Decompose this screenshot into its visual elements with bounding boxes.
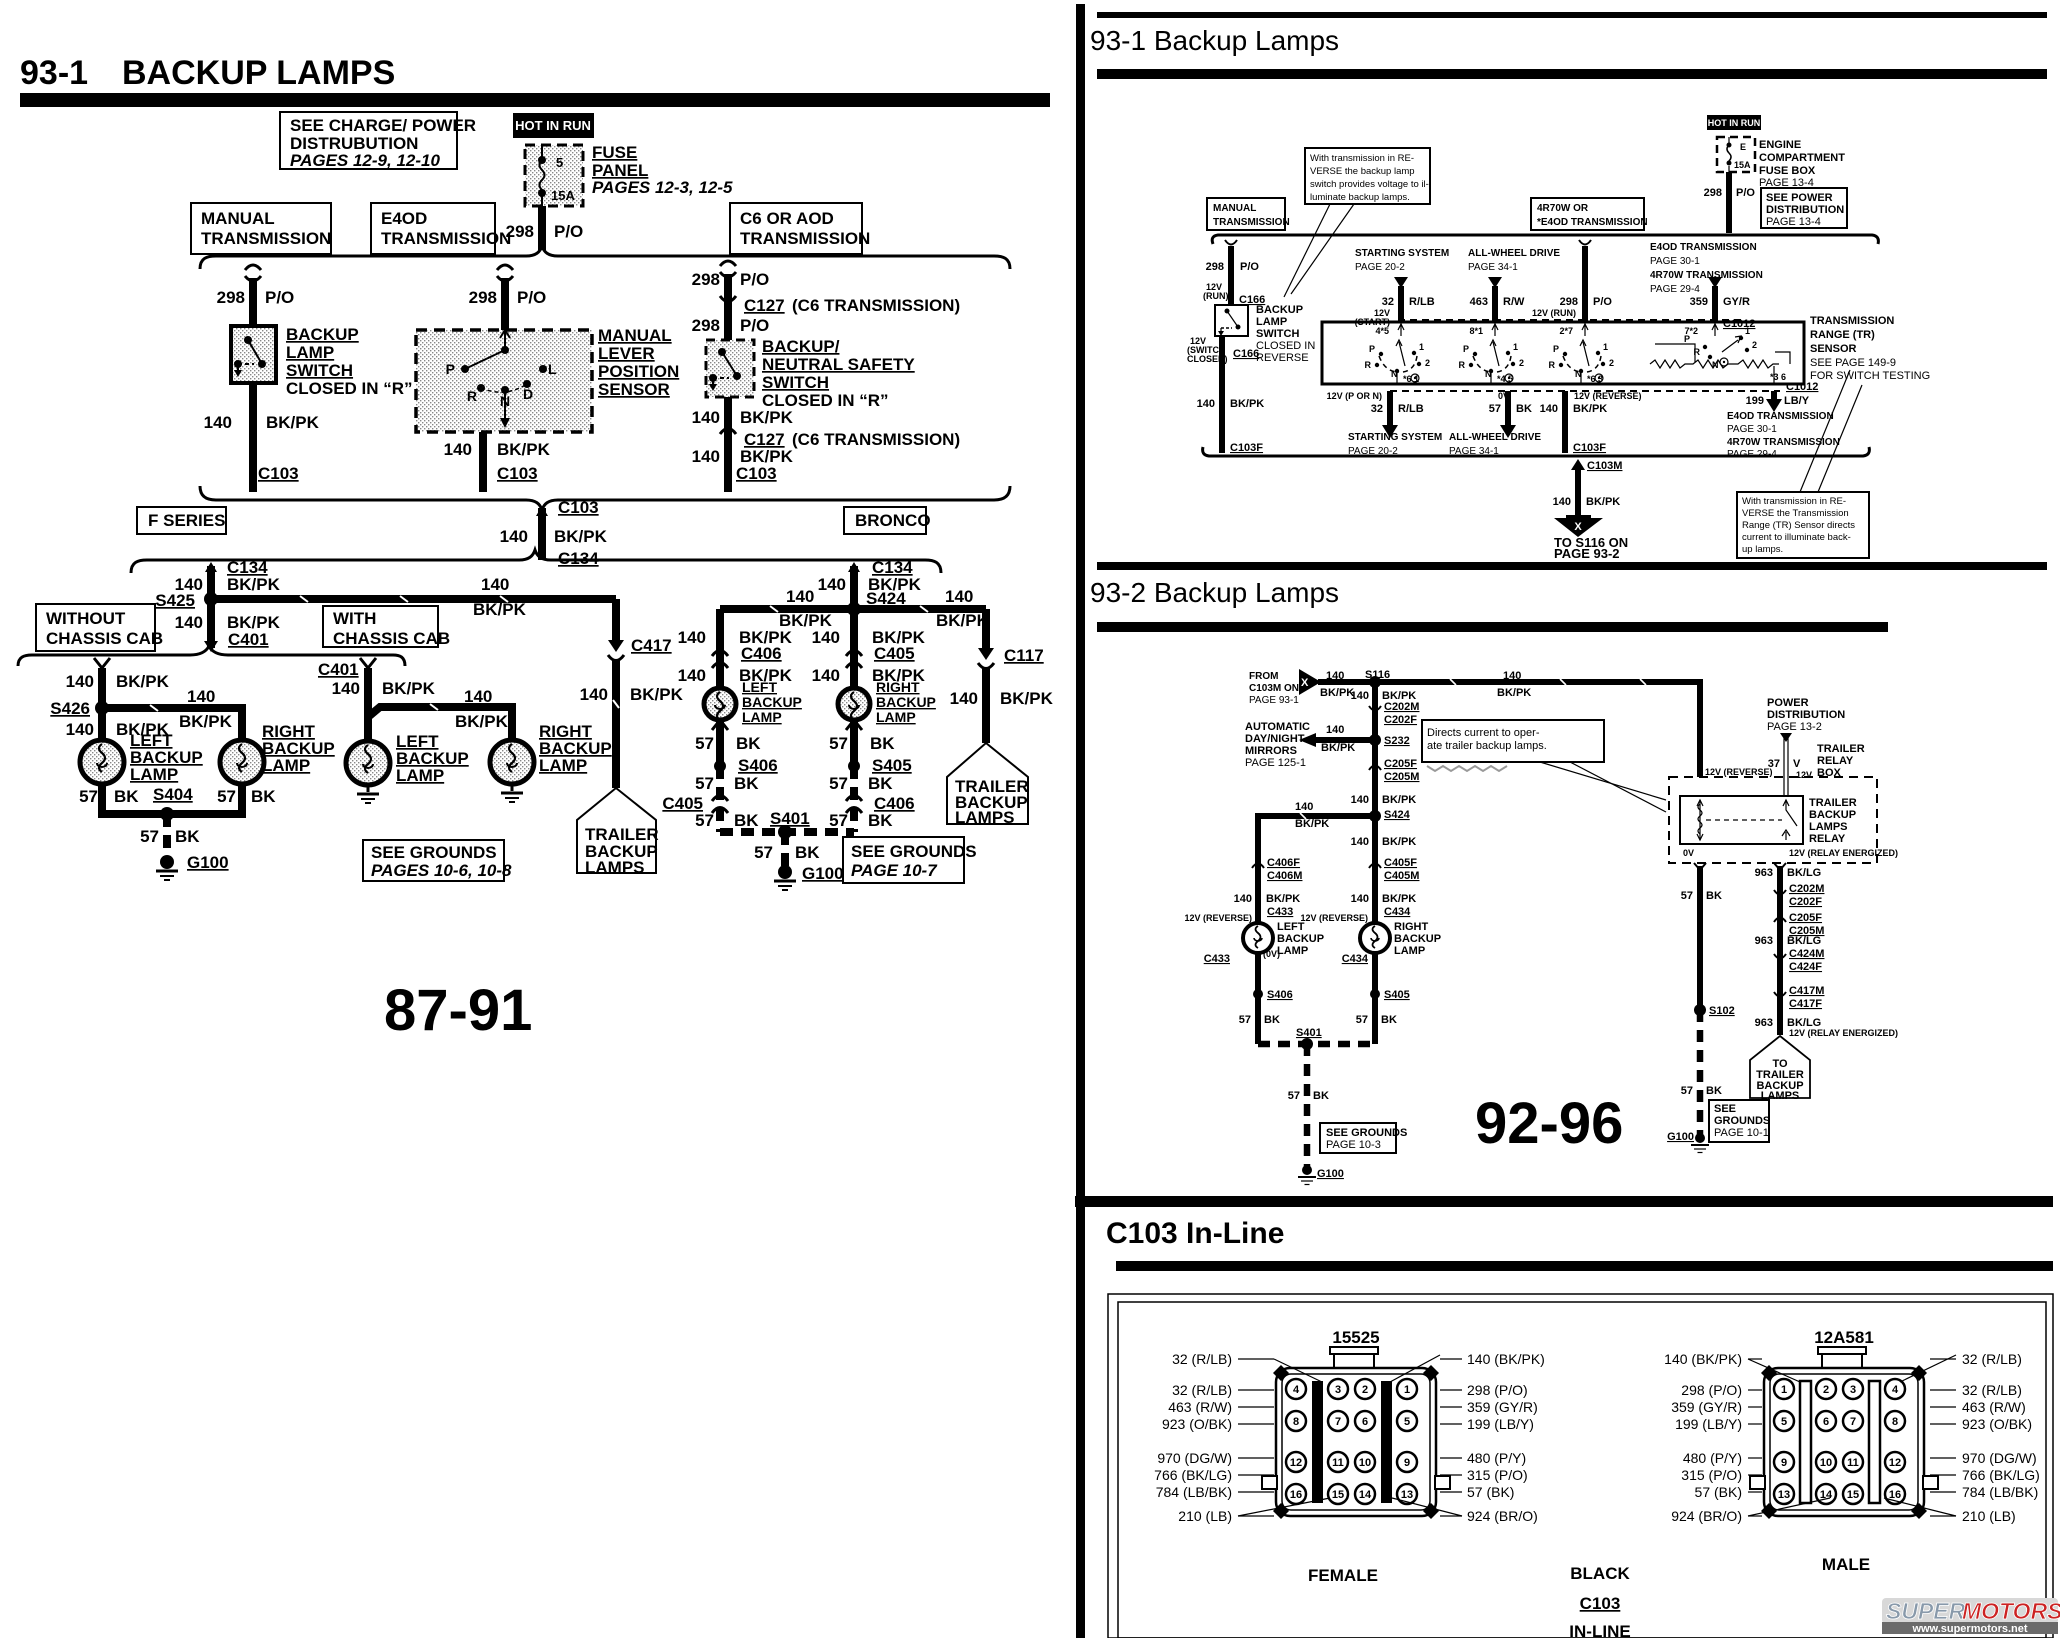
svg-text:R: R (1459, 360, 1466, 370)
svg-text:C205F: C205F (1384, 758, 1417, 770)
svg-text:BK/PK: BK/PK (382, 679, 436, 698)
svg-text:WITHOUT: WITHOUT (46, 609, 126, 628)
svg-text:TRANSMISSION: TRANSMISSION (381, 229, 511, 248)
svg-text:BK: BK (868, 811, 893, 830)
svg-text:199 (LB/Y): 199 (LB/Y) (1675, 1416, 1742, 1432)
svg-text:RIGHT: RIGHT (876, 679, 920, 695)
svg-text:C406F: C406F (1267, 857, 1300, 869)
svg-text:57: 57 (695, 811, 714, 830)
trailer backup lamps pentagon (Bronco) (947, 743, 1029, 827)
wire C103 / 140 BK/PK / C134 (center) (500, 498, 608, 568)
svg-text:1: 1 (1781, 1384, 1787, 1396)
wire S232 down C205 (1351, 740, 1420, 816)
svg-text:8: 8 (1293, 1416, 1299, 1428)
svg-text:BRONCO: BRONCO (855, 511, 931, 530)
svg-text:15: 15 (1847, 1489, 1859, 1501)
svg-text:57: 57 (1681, 890, 1693, 902)
svg-text:766 (BK/LG): 766 (BK/LG) (1962, 1467, 2040, 1483)
right backup lamp (Bronco) (838, 688, 870, 720)
svg-text:LAMPS: LAMPS (1761, 1090, 1800, 1102)
svg-text:BK/PK: BK/PK (1382, 893, 1416, 905)
svg-text:57: 57 (829, 734, 848, 753)
svg-text:BACKUP LAMPS: BACKUP LAMPS (122, 54, 395, 92)
svg-text:210 (LB): 210 (LB) (1962, 1508, 2016, 1524)
svg-text:VERSE the Transmission: VERSE the Transmission (1742, 508, 1849, 519)
svg-text:PAGES 10-6, 10-8: PAGES 10-6, 10-8 (371, 861, 512, 880)
svg-text:140: 140 (1326, 724, 1344, 736)
svg-text:BK: BK (870, 734, 895, 753)
svg-text:298: 298 (692, 316, 720, 335)
wire C134 to S424 (Bronco trunk) (818, 558, 922, 609)
svg-text:2: 2 (1752, 340, 1757, 350)
svg-text:C424F: C424F (1789, 961, 1822, 973)
svg-text:C202M: C202M (1789, 883, 1824, 895)
ground G100 (trailer relay) (1667, 1131, 1709, 1153)
svg-text:S102: S102 (1709, 1005, 1735, 1017)
svg-text:LAMP: LAMP (130, 765, 178, 784)
right backup lamp (92-96) (1300, 913, 1441, 965)
svg-text:57: 57 (1489, 403, 1501, 415)
svg-text:140: 140 (945, 587, 973, 606)
svg-text:15525: 15525 (1332, 1328, 1379, 1347)
svg-text:32: 32 (1382, 296, 1394, 308)
svg-text:C405F: C405F (1384, 857, 1417, 869)
svg-text:R: R (1365, 360, 1372, 370)
svg-text:BACKUP: BACKUP (1809, 809, 1856, 821)
svg-text:C166: C166 (1233, 348, 1259, 360)
svg-text:BK/PK: BK/PK (266, 413, 320, 432)
svg-text:12V (REVERSE): 12V (REVERSE) (1184, 913, 1252, 923)
svg-text:BK: BK (795, 843, 820, 862)
svg-text:10: 10 (1359, 1457, 1371, 1469)
svg-text:BK/PK: BK/PK (497, 440, 551, 459)
svg-text:S405: S405 (1384, 989, 1410, 1001)
svg-text:LAMP: LAMP (876, 709, 916, 725)
splice S405 (Bronco) (848, 756, 912, 775)
svg-text:PAGE 93-1: PAGE 93-1 (1249, 695, 1299, 706)
svg-text:1: 1 (1513, 342, 1518, 352)
svg-text:FROM: FROM (1249, 671, 1278, 682)
svg-text:current to illuminate back-: current to illuminate back- (1742, 532, 1851, 543)
svg-text:12V (REVERSE): 12V (REVERSE) (1705, 767, 1773, 777)
splice S401 ground bus (92-96) (1258, 1027, 1375, 1050)
brace chassis cab options (18, 646, 405, 666)
svg-text:S426: S426 (50, 699, 90, 718)
svg-text:93-1: 93-1 (20, 54, 88, 92)
trailer backup lamps pentagon (F-series) (577, 788, 659, 877)
svg-text:COMPARTMENT: COMPARTMENT (1759, 152, 1845, 164)
svg-text:140: 140 (1553, 496, 1571, 508)
svg-text:G100: G100 (1317, 1168, 1344, 1180)
wire 57 BK S401 to G100 (92-96) (1288, 1044, 1329, 1168)
right backup lamp label (262, 722, 335, 775)
svg-text:C405: C405 (874, 644, 915, 663)
svg-text:784 (LB/BK): 784 (LB/BK) (1962, 1484, 2038, 1500)
svg-text:S404: S404 (153, 785, 193, 804)
wire 57 BK S404 to G100 (140, 814, 200, 858)
svg-text:13: 13 (1778, 1489, 1790, 1501)
wire 140 BK/PK to C103F (left column right page) (1197, 336, 1265, 454)
svg-text:5: 5 (1781, 1416, 1787, 1428)
svg-text:E4OD TRANSMISSION: E4OD TRANSMISSION (1727, 411, 1834, 422)
svg-text:X: X (1574, 521, 1582, 533)
svg-text:BK: BK (1313, 1090, 1329, 1102)
svg-text:4*5: 4*5 (1375, 326, 1389, 336)
splice S424 (93-2) (1369, 809, 1411, 822)
callout: directs current to operate trailer backup lamps (1422, 720, 1666, 812)
svg-text:87-91: 87-91 (384, 978, 532, 1043)
svg-text:6: 6 (1362, 1416, 1368, 1428)
trailer relay box label (1817, 743, 1865, 779)
wire 140 BK/PK S426 to right backup lamp (w/o chassis) (102, 687, 242, 740)
svg-text:12V (REVERSE): 12V (REVERSE) (1574, 391, 1642, 401)
wire 298 P/O (run) to TR sensor (1532, 240, 1612, 322)
svg-text:C103F: C103F (1573, 442, 1606, 454)
svg-text:3: 3 (1335, 1384, 1341, 1396)
trailer relay outer dashed box (1669, 777, 1877, 863)
svg-text:BK: BK (736, 734, 761, 753)
wire 57 BK S406 to C405 to bus (Bronco left) (662, 766, 759, 832)
svg-text:CLOSED IN “R”: CLOSED IN “R” (286, 379, 413, 398)
svg-text:8: 8 (1892, 1416, 1898, 1428)
svg-text:LAMP: LAMP (1394, 945, 1425, 957)
svg-text:140: 140 (692, 447, 720, 466)
svg-text:SEE POWER: SEE POWER (1766, 192, 1833, 204)
svg-text:TRANSMISSION: TRANSMISSION (201, 229, 331, 248)
svg-text:With transmission in RE-: With transmission in RE- (1310, 153, 1414, 164)
svg-text:C202F: C202F (1384, 714, 1417, 726)
MLPS label (598, 326, 679, 399)
svg-text:BK/PK: BK/PK (116, 672, 170, 691)
svg-text:C127: C127 (744, 296, 785, 315)
wire 140 BK/PK with C127 to C103 (right) (692, 397, 961, 492)
svg-text:G100: G100 (802, 864, 844, 883)
svg-text:CHASSIS CAB: CHASSIS CAB (46, 629, 163, 648)
svg-text:BK/PK: BK/PK (1320, 687, 1354, 699)
female connector 15525 (1262, 1328, 1450, 1519)
wire 57 BK S405 to C406 to bus (Bronco right) (829, 766, 915, 832)
box 4R70W OR E4OD TRANSMISSION (1531, 198, 1648, 230)
backup lamp switch label (right page) (1256, 304, 1315, 364)
svg-text:32 (R/LB): 32 (R/LB) (1172, 1351, 1232, 1367)
branch to left lamp 140 BK/PK (1258, 801, 1375, 860)
svg-text:4: 4 (1892, 1384, 1899, 1396)
svg-text:BACKUP: BACKUP (1256, 304, 1303, 316)
svg-text:NEUTRAL SAFETY: NEUTRAL SAFETY (762, 355, 915, 374)
svg-text:57: 57 (140, 827, 159, 846)
C103M arrow below bus (1553, 459, 1623, 515)
TR sensor resistor network cluster 4 (1650, 322, 1790, 384)
svg-text:RELAY: RELAY (1817, 755, 1854, 767)
svg-text:14: 14 (1359, 1489, 1372, 1501)
svg-text:BLACK: BLACK (1570, 1564, 1630, 1583)
svg-text:7: 7 (1335, 1416, 1341, 1428)
svg-text:BACKUP: BACKUP (1277, 933, 1324, 945)
svg-text:PAGE 125-1: PAGE 125-1 (1245, 757, 1306, 769)
svg-text:BK/PK: BK/PK (1266, 893, 1300, 905)
svg-text:ENGINE: ENGINE (1759, 139, 1801, 151)
box E4OD TRANSMISSION (371, 203, 511, 254)
svg-text:P/O: P/O (740, 270, 769, 289)
svg-text:*3 6: *3 6 (1770, 372, 1786, 382)
svg-text:140: 140 (786, 587, 814, 606)
svg-text:BACKUP: BACKUP (1394, 933, 1441, 945)
svg-text:BK: BK (114, 787, 139, 806)
E4OD/4R70W transmission labels (top right) (1650, 242, 1763, 295)
svg-text:(C6 TRANSMISSION): (C6 TRANSMISSION) (792, 296, 960, 315)
svg-text:140: 140 (1351, 893, 1369, 905)
wire 140 BK/PK S426 down to left backup lamp (66, 708, 170, 740)
section title 93-2 Backup Lamps (1090, 562, 2047, 632)
svg-text:S401: S401 (1296, 1027, 1322, 1039)
svg-text:C405M: C405M (1384, 870, 1419, 882)
svg-text:Range (TR) Sensor directs: Range (TR) Sensor directs (1742, 520, 1855, 531)
note box SEE GROUNDS 10-6 10-8 (363, 840, 512, 881)
svg-text:CLOSED IN: CLOSED IN (1256, 340, 1315, 352)
svg-text:15: 15 (1332, 1489, 1344, 1501)
svg-text:140: 140 (481, 575, 509, 594)
svg-text:140: 140 (1234, 893, 1252, 905)
svg-text:359 (GY/R): 359 (GY/R) (1671, 1399, 1742, 1415)
svg-text:G100: G100 (1667, 1131, 1694, 1143)
splice S425 (204, 592, 218, 606)
wire 359 GY/R C1012 (1690, 277, 1756, 330)
svg-text:BK: BK (868, 774, 893, 793)
wire left lamp to S406 (1239, 953, 1293, 1044)
svg-text:140: 140 (464, 687, 492, 706)
svg-text:2: 2 (1362, 1384, 1368, 1396)
svg-text:LEFT: LEFT (742, 679, 777, 695)
wire 140 BK/PK to C103 (left) (204, 383, 320, 492)
svg-text:IN-LINE: IN-LINE (1569, 1622, 1630, 1638)
svg-text:E4OD TRANSMISSION: E4OD TRANSMISSION (1650, 242, 1757, 253)
svg-text:9: 9 (1781, 1457, 1787, 1469)
svg-text:C406M: C406M (1267, 870, 1302, 882)
svg-text:FUSE: FUSE (592, 143, 637, 162)
svg-text:140: 140 (812, 628, 840, 647)
svg-text:P: P (1553, 344, 1559, 354)
backup lamp switch (right page) (1215, 305, 1248, 336)
svg-text:TRAILER: TRAILER (1817, 743, 1865, 755)
svg-text:12V (RELAY ENERGIZED): 12V (RELAY ENERGIZED) (1789, 848, 1898, 858)
svg-text:MALE: MALE (1822, 1555, 1870, 1574)
svg-text:140: 140 (1351, 794, 1369, 806)
wire S116 down C202 (1351, 682, 1420, 740)
svg-text:S405: S405 (872, 756, 912, 775)
svg-text:298 (P/O): 298 (P/O) (1681, 1382, 1742, 1398)
svg-text:S425: S425 (155, 591, 195, 610)
svg-text:BK/LG: BK/LG (1787, 935, 1821, 947)
relay output labels (1683, 848, 1898, 858)
svg-text:C103M ON: C103M ON (1249, 683, 1299, 694)
svg-text:C103: C103 (736, 464, 777, 483)
svg-text:140: 140 (66, 720, 94, 739)
svg-text:SENSOR: SENSOR (598, 380, 670, 399)
backup lamp switch label (286, 325, 413, 398)
svg-text:11: 11 (1332, 1457, 1344, 1469)
svg-text:57: 57 (1681, 1085, 1693, 1097)
svg-text:up lamps.: up lamps. (1742, 544, 1783, 555)
svg-text:SWITCH: SWITCH (1256, 328, 1299, 340)
svg-text:57: 57 (829, 811, 848, 830)
backup lamp switch (manual) (231, 326, 276, 383)
svg-text:P/O: P/O (1240, 261, 1259, 273)
svg-text:93-1 Backup Lamps: 93-1 Backup Lamps (1090, 25, 1339, 56)
svg-text:X: X (1301, 677, 1309, 689)
svg-text:4R70W TRANSMISSION: 4R70W TRANSMISSION (1650, 270, 1763, 281)
svg-text:C417M: C417M (1789, 985, 1824, 997)
svg-text:R/W: R/W (1503, 296, 1525, 308)
svg-text:BK: BK (175, 827, 200, 846)
svg-text:BK: BK (1706, 1085, 1722, 1097)
svg-text:5: 5 (1404, 1416, 1410, 1428)
svg-text:140: 140 (1503, 670, 1521, 682)
svg-text:RELAY: RELAY (1809, 833, 1846, 845)
supermotors watermark (1882, 1598, 2060, 1635)
svg-text:TRANSMISSION: TRANSMISSION (1810, 315, 1894, 327)
HOT IN RUN label (513, 113, 594, 138)
svg-text:2: 2 (1519, 358, 1524, 368)
wire 298 P/O from fuse panel (506, 206, 584, 250)
svg-text:LAMP: LAMP (539, 756, 587, 775)
svg-text:C205M: C205M (1384, 771, 1419, 783)
svg-text:BK/PK: BK/PK (1295, 818, 1329, 830)
svg-text:57: 57 (695, 734, 714, 753)
svg-text:BK/PK: BK/PK (1321, 742, 1355, 754)
wire 140 BK/PK C417 to trailer lamps (F-series) (580, 599, 684, 788)
svg-text:2*7: 2*7 (1559, 326, 1573, 336)
svg-text:With transmission in RE-: With transmission in RE- (1742, 496, 1846, 507)
svg-text:12A581: 12A581 (1814, 1328, 1874, 1347)
wire 140 BK/PK S425 to C417 (207, 575, 616, 619)
male connector 12A581 (1750, 1328, 1938, 1519)
ground under right lamp (501, 784, 523, 802)
svg-text:DISTRIBUTION: DISTRIBUTION (1767, 709, 1845, 721)
svg-text:C401: C401 (318, 660, 359, 679)
manual lever position sensor (416, 330, 592, 432)
svg-text:C103: C103 (1580, 1594, 1621, 1613)
svg-text:R: R (1694, 347, 1701, 357)
left backup lamp (with chassis cab) (346, 741, 390, 785)
svg-text:P/O: P/O (1736, 187, 1755, 199)
right backup lamp label (with chassis) (539, 722, 612, 775)
box C6 OR AOD TRANSMISSION (730, 203, 870, 254)
svg-text:140: 140 (175, 613, 203, 632)
svg-text:Directs current to oper-: Directs current to oper- (1427, 727, 1540, 739)
svg-text:(C6 TRANSMISSION): (C6 TRANSMISSION) (792, 430, 960, 449)
svg-text:LAMP: LAMP (742, 709, 782, 725)
TR sensor label (1810, 315, 1930, 382)
svg-text:AUTOMATIC: AUTOMATIC (1245, 721, 1310, 733)
svg-text:11: 11 (1847, 1457, 1859, 1469)
svg-text:REVERSE: REVERSE (1256, 352, 1309, 364)
ground G100 (F-series) (156, 853, 229, 880)
svg-text:PAGE 30-1: PAGE 30-1 (1727, 424, 1777, 435)
svg-text:57: 57 (754, 843, 773, 862)
section title 93-1 Backup Lamps (right page) (1090, 12, 2047, 79)
svg-text:BK/PK: BK/PK (1497, 687, 1531, 699)
automatic day/night mirrors tap (1245, 721, 1410, 769)
dashed bus above TR sensor (1398, 319, 1745, 321)
svg-text:12V (REVERSE): 12V (REVERSE) (1300, 913, 1368, 923)
svg-text:6: 6 (1823, 1416, 1829, 1428)
svg-text:switch provides voltage to il-: switch provides voltage to il- (1310, 179, 1429, 190)
svg-text:C1012: C1012 (1786, 381, 1818, 393)
svg-text:SUPER: SUPER (1886, 1598, 1966, 1624)
note box SEE GROUNDS PAGE 10-7 (843, 837, 977, 883)
wire 57 BK S102 to G100 (1681, 1010, 1722, 1136)
svg-text:C103: C103 (558, 498, 599, 517)
svg-text:SEE GROUNDS: SEE GROUNDS (371, 843, 497, 862)
svg-text:BK/PK: BK/PK (179, 712, 233, 731)
svg-text:140: 140 (950, 689, 978, 708)
svg-text:140: 140 (1351, 836, 1369, 848)
svg-text:970 (DG/W): 970 (DG/W) (1157, 1450, 1232, 1466)
svg-text:MIRRORS: MIRRORS (1245, 745, 1297, 757)
svg-text:0V: 0V (1683, 848, 1694, 858)
93-2 section bottom bar (1075, 1196, 2053, 1207)
svg-text:*E4OD TRANSMISSION: *E4OD TRANSMISSION (1537, 217, 1648, 228)
dashed bus below TR sensor (1390, 390, 1780, 392)
svg-text:P/O: P/O (740, 316, 769, 335)
brace bottom (three options join) (200, 486, 1010, 510)
svg-text:G100: G100 (187, 853, 229, 872)
svg-text:210 (LB): 210 (LB) (1178, 1508, 1232, 1524)
svg-text:MANUAL: MANUAL (1213, 203, 1256, 214)
svg-text:315 (P/O): 315 (P/O) (1467, 1467, 1528, 1483)
HOT IN RUN (right page) (1707, 115, 1761, 130)
svg-text:766 (BK/LG): 766 (BK/LG) (1154, 1467, 1232, 1483)
left backup lamp (92-96) (1184, 913, 1324, 965)
svg-text:C103: C103 (497, 464, 538, 483)
svg-text:298: 298 (469, 288, 497, 307)
svg-text:SWITCH: SWITCH (762, 373, 829, 392)
svg-text:140: 140 (1351, 690, 1369, 702)
svg-text:S232: S232 (1384, 735, 1410, 747)
svg-text:140: 140 (678, 666, 706, 685)
svg-text:BK/PK: BK/PK (227, 575, 281, 594)
svg-text:LAMP: LAMP (396, 766, 444, 785)
svg-text:92-96: 92-96 (1475, 1091, 1623, 1156)
svg-text:140: 140 (678, 628, 706, 647)
svg-text:16: 16 (1290, 1489, 1302, 1501)
svg-text:1: 1 (1404, 1384, 1410, 1396)
svg-text:C433: C433 (1267, 906, 1293, 918)
splice S426 (50, 699, 109, 718)
svg-text:FOR SWITCH TESTING: FOR SWITCH TESTING (1810, 370, 1930, 382)
left backup lamp (w/o chassis cab) (80, 740, 124, 784)
note box SEE POWER DISTRIBUTION (1761, 188, 1847, 228)
svg-text:BK/PK: BK/PK (1382, 794, 1416, 806)
wire 298 P/O to C166 (1203, 240, 1265, 306)
female connector pin labels (1154, 1351, 1545, 1524)
title 93-1 BACKUP LAMPS (20, 54, 395, 92)
svg-text:R: R (467, 388, 477, 404)
svg-text:57: 57 (1288, 1090, 1300, 1102)
splice S406 (Bronco) (714, 756, 778, 775)
svg-text:S406: S406 (738, 756, 778, 775)
wire 963 BK/LG relay to connectors (1755, 863, 1898, 1038)
output 57 BK to all-wheel drive (1449, 391, 1541, 457)
wire 140 BK/PK C117 to trailer lamps (Bronco) (950, 609, 1054, 743)
svg-text:LAMP: LAMP (1256, 316, 1287, 328)
wire 140 BK/PK to S426 (66, 658, 170, 708)
svg-text:12V: 12V (1796, 770, 1812, 780)
box WITHOUT CHASSIS CAB (36, 604, 163, 651)
svg-text:C202M: C202M (1384, 701, 1419, 713)
all-wheel drive feed (1468, 248, 1560, 322)
svg-text:140 (BK/PK): 140 (BK/PK) (1467, 1351, 1545, 1367)
